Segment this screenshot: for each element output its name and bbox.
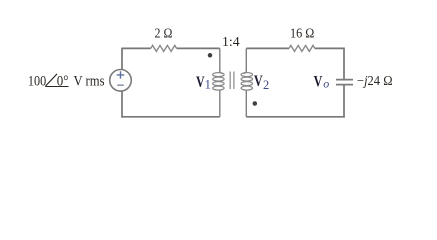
- svg-text:16 Ω: 16 Ω: [290, 27, 314, 42]
- svg-text:−j24 Ω: −j24 Ω: [357, 74, 393, 89]
- wire: loop1 top wire left segment: [122, 47, 151, 49]
- inductor L2 secondary coil lead bottom: [245, 90, 247, 117]
- resistor R2 16ohm zigzag: [289, 45, 315, 51]
- inductor L1 primary coil lead top: [220, 48, 223, 73]
- svg-text:1: 1: [205, 78, 211, 92]
- inductor L1 primary coil lead bottom: [219, 90, 221, 117]
- source plus sign: [117, 71, 125, 78]
- wire: loop2 top wire right segment: [315, 47, 345, 49]
- capacitor C1 plates: [336, 80, 353, 85]
- wire: loop1 left vertical lower: [121, 91, 123, 117]
- inductor L2 secondary coil lead top: [244, 48, 247, 73]
- source V source circle: [110, 70, 132, 92]
- transformer core lines: [230, 72, 234, 90]
- wire: loop2 right vertical lower: [343, 85, 345, 118]
- svg-text:100: 100: [28, 73, 46, 89]
- wire: loop2 right vertical upper: [343, 48, 345, 79]
- svg-text:V rms: V rms: [74, 74, 105, 90]
- wire: loop2 bottom wire: [246, 116, 344, 118]
- resistor R1 2ohm zigzag: [151, 45, 177, 51]
- label: Vo output voltage: [314, 74, 330, 91]
- svg-text:V: V: [314, 74, 323, 91]
- dot: primary polarity dot: [208, 53, 213, 58]
- wire: loop1 bottom wire: [121, 116, 220, 118]
- svg-text:2: 2: [263, 78, 269, 92]
- source minus sign: [117, 84, 124, 86]
- inductor L2 secondary coil loops: [241, 73, 252, 91]
- svg-text:V: V: [254, 73, 263, 90]
- svg-text:V: V: [196, 74, 205, 91]
- svg-text:1:4: 1:4: [222, 35, 240, 50]
- svg-text:o: o: [323, 77, 329, 91]
- wire: loop1 left vertical upper: [121, 48, 123, 70]
- inductor L1 primary coil loops: [213, 73, 224, 91]
- label: source value 100 angle 0 deg V rms: [28, 73, 105, 89]
- svg-text:2 Ω: 2 Ω: [155, 26, 173, 41]
- label: V1 primary voltage: [196, 74, 211, 92]
- dot: secondary polarity dot: [253, 101, 257, 106]
- wire: loop2 top wire left segment: [246, 47, 289, 49]
- wire: loop1 top wire right segment: [177, 47, 220, 49]
- label: V2 secondary voltage: [254, 73, 269, 92]
